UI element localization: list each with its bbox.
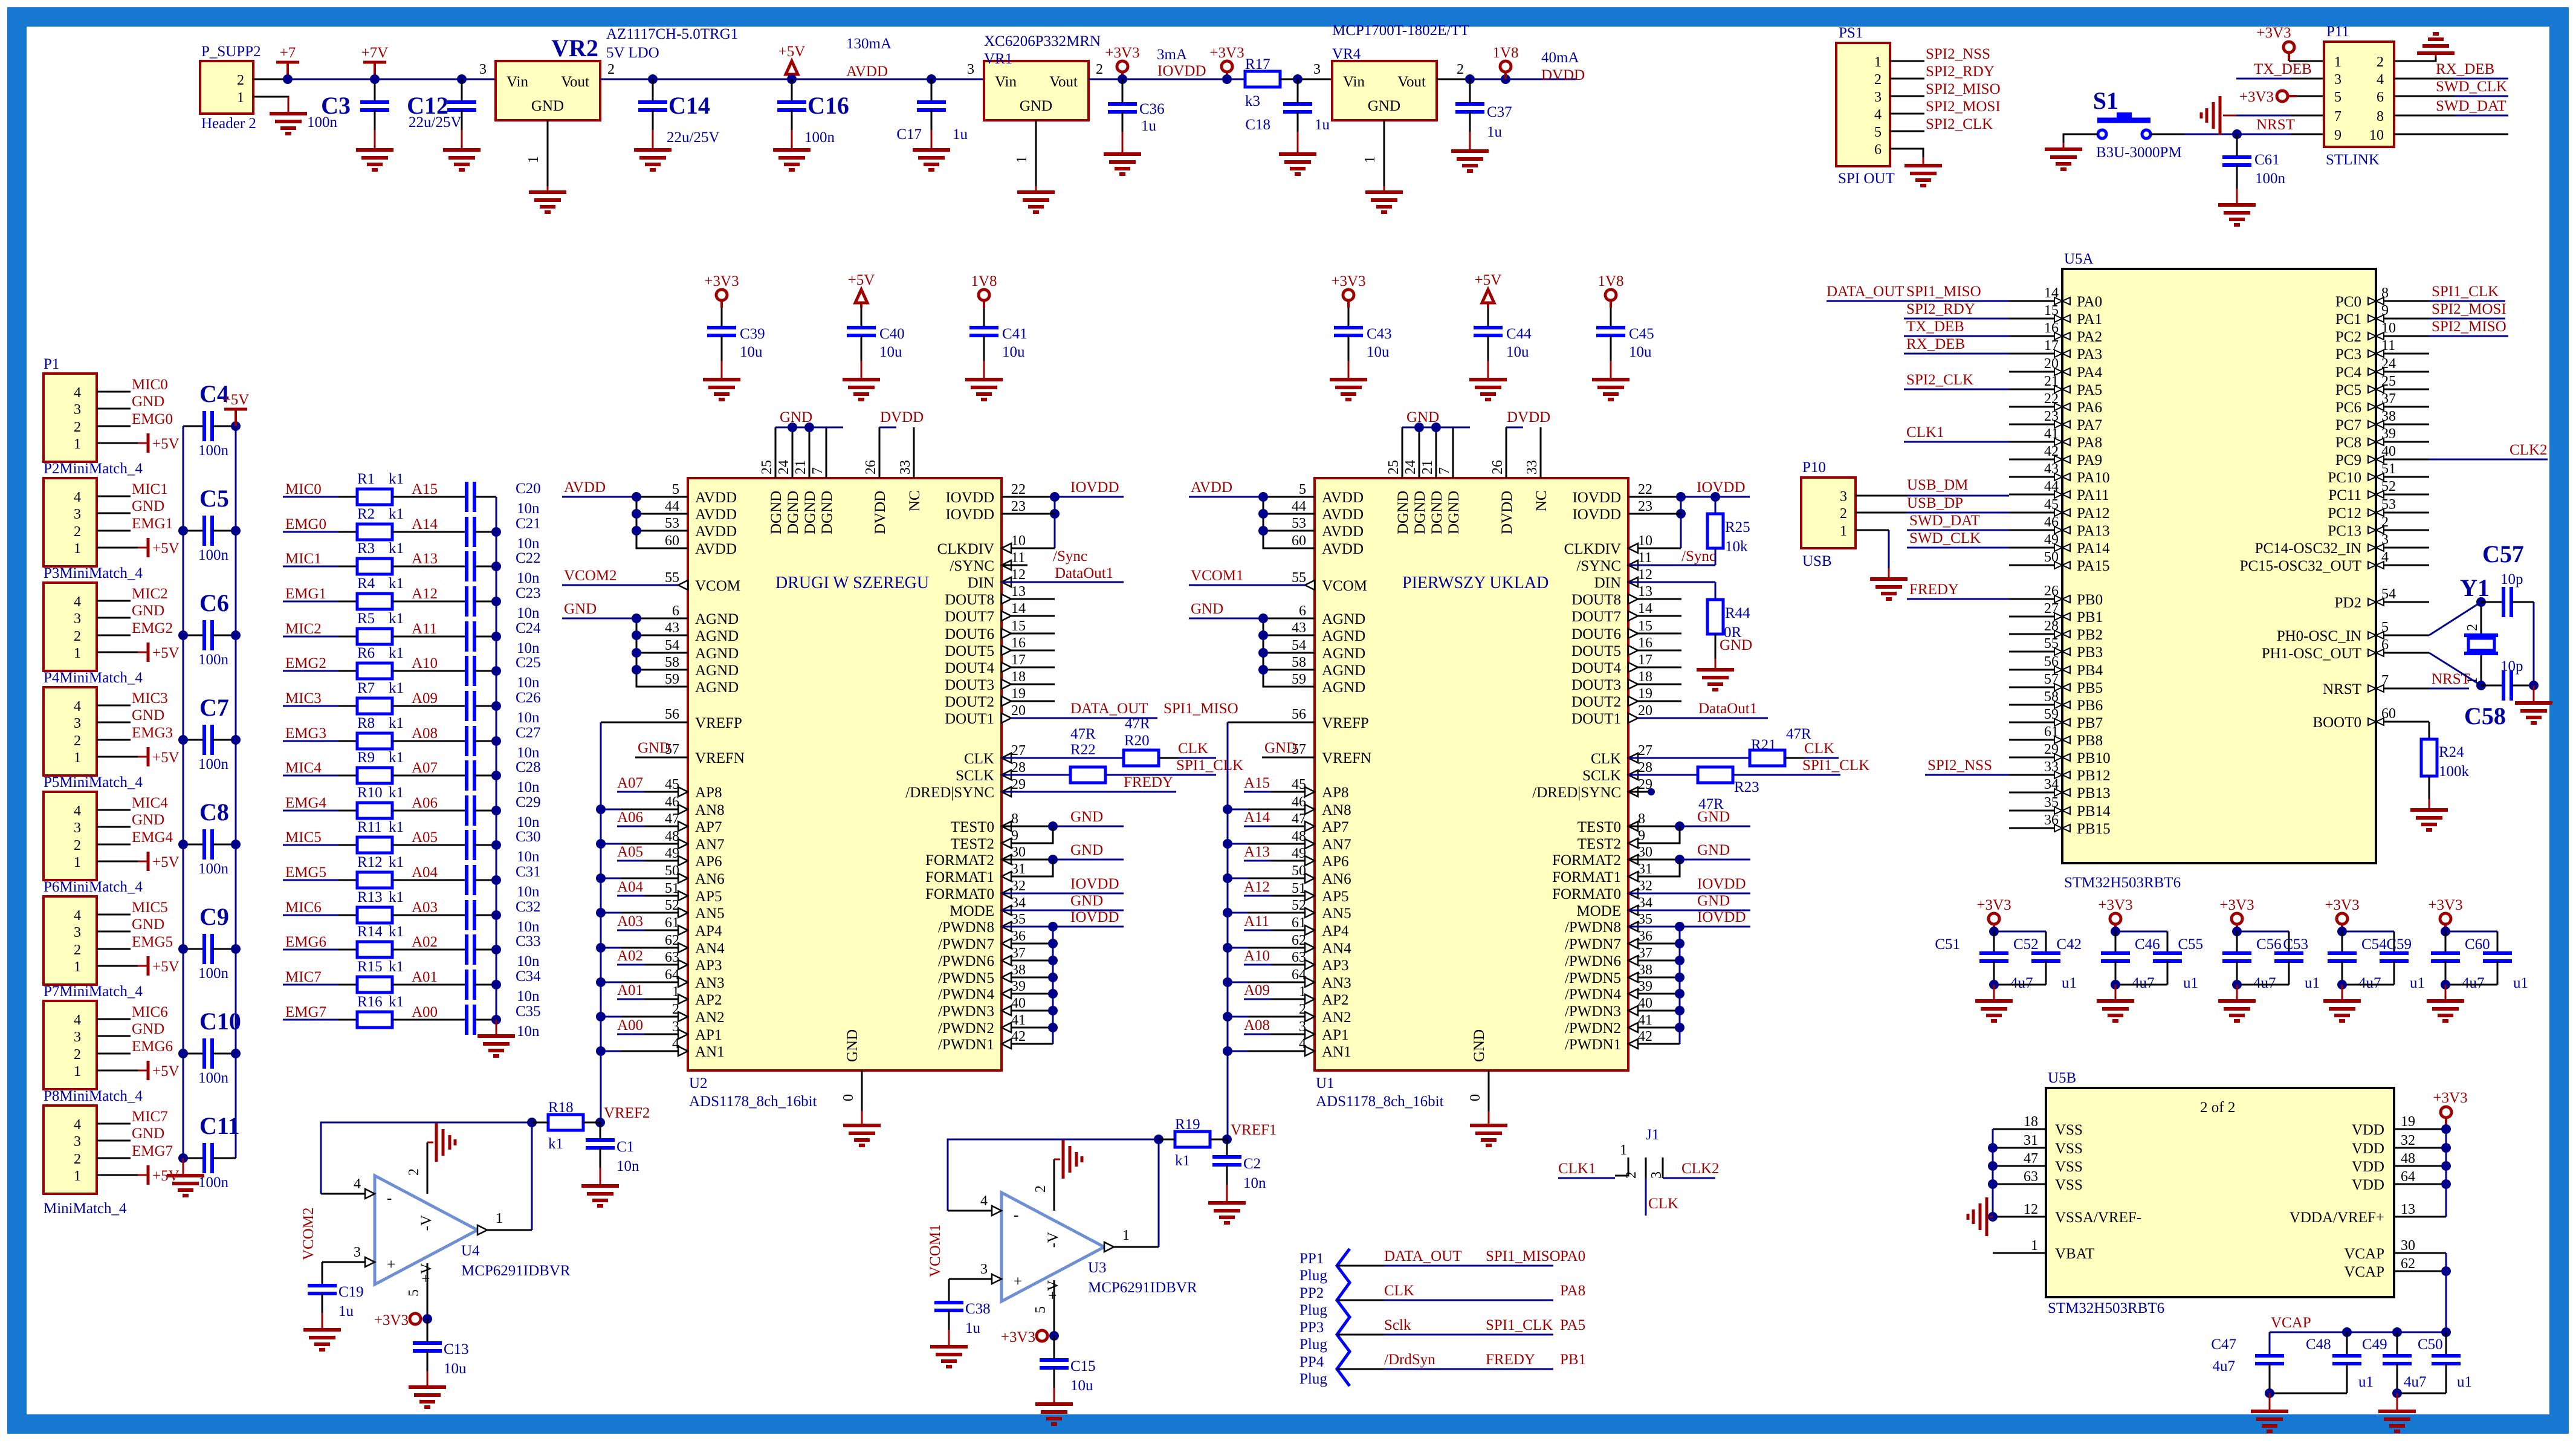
svg-text:DOUT8: DOUT8 <box>1571 592 1621 608</box>
svg-text:10n: 10n <box>517 1023 540 1040</box>
svg-text:C52: C52 <box>2013 936 2039 953</box>
svg-text:25: 25 <box>759 460 775 474</box>
wire P6 pin4 MIC5 <box>97 899 168 916</box>
svg-text:+7: +7 <box>280 45 296 61</box>
AVDD pins bracket <box>632 482 737 557</box>
U3 feedback wire <box>948 1139 1159 1216</box>
svg-text:VSSA/VREF-: VSSA/VREF- <box>2055 1209 2141 1226</box>
ground under C55 <box>2218 980 2256 1021</box>
svg-text:+3V3: +3V3 <box>2325 897 2359 913</box>
svg-text:1: 1 <box>1362 156 1378 163</box>
capacitor C58 <box>2464 658 2539 730</box>
svg-text:AVDD: AVDD <box>1191 479 1232 496</box>
svg-text:10n: 10n <box>517 953 540 970</box>
svg-text:C20: C20 <box>516 481 541 497</box>
ground at PS1 pin6 <box>1904 166 1942 186</box>
svg-text:IOVDD: IOVDD <box>1070 909 1119 925</box>
svg-text:53: 53 <box>1292 516 1306 531</box>
J1 pin1 <box>1615 1157 1628 1176</box>
resistor R5 <box>283 610 467 644</box>
svg-text:7: 7 <box>810 467 826 474</box>
svg-text:3: 3 <box>479 62 487 77</box>
svg-text:P4MiniMatch_4: P4MiniMatch_4 <box>44 670 143 686</box>
svg-text:3: 3 <box>74 1029 81 1045</box>
U1 PWDN8 IOVDD wire <box>1628 909 1750 931</box>
svg-text:58: 58 <box>1292 655 1306 670</box>
IC U5B box <box>2046 1070 2394 1316</box>
capacitor C52 <box>1994 931 2077 991</box>
svg-text:/PWDN1: /PWDN1 <box>1565 1037 1621 1053</box>
IC U1 ADS1178 box <box>1315 478 1628 1110</box>
svg-text:17: 17 <box>1638 652 1652 668</box>
power +7V <box>361 45 389 84</box>
svg-text:k1: k1 <box>389 785 404 801</box>
svg-text:1: 1 <box>1874 54 1882 70</box>
svg-text:CLK: CLK <box>1648 1196 1678 1212</box>
svg-text:VCOM: VCOM <box>695 578 740 594</box>
IC GND bottom pin <box>841 1029 862 1125</box>
svg-text:60: 60 <box>665 533 679 549</box>
svg-text:P2MiniMatch_4: P2MiniMatch_4 <box>44 461 143 477</box>
svg-text:+3V3: +3V3 <box>1976 897 2011 913</box>
svg-text:VREFP: VREFP <box>695 715 742 731</box>
svg-text:PA13: PA13 <box>2077 523 2110 539</box>
svg-text:2: 2 <box>1457 62 1464 77</box>
svg-text:C36: C36 <box>1139 101 1165 117</box>
ground under R44 <box>1697 670 1734 690</box>
svg-text:39: 39 <box>1011 979 1026 994</box>
svg-text:MIC6: MIC6 <box>132 1004 168 1020</box>
svg-text:10u: 10u <box>1002 344 1025 360</box>
svg-text:AVDD: AVDD <box>1322 523 1364 540</box>
svg-text:52: 52 <box>665 898 679 913</box>
svg-text:10n: 10n <box>517 536 540 552</box>
capacitor C15 <box>1040 1336 1096 1404</box>
svg-text:k1: k1 <box>389 819 404 835</box>
svg-text:10: 10 <box>2369 128 2384 143</box>
power +3V3 above C39 <box>704 273 739 308</box>
svg-text:15: 15 <box>1011 618 1026 634</box>
ground under C41 <box>965 380 1003 400</box>
svg-text:PB13: PB13 <box>2077 785 2111 801</box>
svg-text:SPI1_CLK: SPI1_CLK <box>1176 757 1243 774</box>
svg-text:SPI1_MISO: SPI1_MISO <box>1163 701 1238 717</box>
svg-text:EMG1: EMG1 <box>285 586 326 602</box>
ground under C14 <box>634 150 672 170</box>
svg-text:3: 3 <box>1840 489 1847 505</box>
capacitor C59 <box>2386 927 2484 991</box>
svg-text:C5: C5 <box>199 485 229 512</box>
power +3V3 above C53 <box>2325 897 2359 931</box>
svg-text:/DRED|SYNC: /DRED|SYNC <box>1532 785 1621 801</box>
U5A NRST pin <box>2323 673 2429 698</box>
capacitor C22 <box>467 550 541 586</box>
U4 output wire <box>477 1122 532 1235</box>
svg-text:C38: C38 <box>965 1301 991 1317</box>
svg-text:MCP6291IDBVR: MCP6291IDBVR <box>1088 1280 1197 1296</box>
svg-text:USB: USB <box>1802 553 1832 569</box>
svg-text:NC: NC <box>907 490 923 511</box>
svg-text:/SYNC: /SYNC <box>950 558 994 574</box>
wire P3 pin1 +5V <box>97 652 148 653</box>
NC top pin <box>898 427 923 511</box>
ground under VR1 <box>1017 192 1055 212</box>
resistor R25 <box>1707 497 1750 565</box>
ground under C59 <box>2427 980 2464 1021</box>
svg-text:AN5: AN5 <box>1322 905 1351 922</box>
svg-text:2: 2 <box>406 1168 422 1176</box>
ground under C16 <box>773 150 811 170</box>
svg-text:S1: S1 <box>2093 87 2118 114</box>
svg-text:32: 32 <box>2401 1133 2415 1148</box>
svg-text:GND: GND <box>1697 809 1730 825</box>
svg-text:R16: R16 <box>357 994 383 1010</box>
J1 pin3 CLK2 wire <box>1649 1157 1720 1179</box>
svg-text:EMG7: EMG7 <box>285 1004 326 1020</box>
svg-text:AGND: AGND <box>695 646 739 662</box>
net label DVDD <box>1507 409 1550 426</box>
U5B VDD rail <box>2441 1124 2451 1217</box>
U1 DIN wire to R44 <box>1628 582 1715 600</box>
power +3V3 above C43 <box>1331 273 1365 308</box>
svg-text:5: 5 <box>1874 125 1882 140</box>
connector P10 <box>1801 459 1856 569</box>
svg-text:2: 2 <box>2377 54 2384 70</box>
capacitor C54 <box>2342 931 2425 991</box>
svg-text:A09: A09 <box>412 690 438 707</box>
svg-text:20: 20 <box>1638 703 1652 719</box>
svg-text:63: 63 <box>2024 1169 2038 1185</box>
svg-text:30: 30 <box>2401 1238 2415 1254</box>
capacitor C32 <box>467 899 541 935</box>
capacitor C2 <box>1212 1139 1266 1203</box>
capacitor C7 <box>178 694 241 772</box>
capacitor C14 <box>638 74 720 150</box>
svg-text:GND: GND <box>1406 409 1439 426</box>
U3 pin2 earth ground <box>1033 1140 1082 1211</box>
svg-text:47R: 47R <box>1070 726 1096 742</box>
svg-text:23: 23 <box>1638 499 1652 514</box>
svg-text:-V: -V <box>418 1215 435 1231</box>
net label SPI2_RDY <box>1926 63 1995 80</box>
svg-text:2: 2 <box>74 1047 81 1063</box>
svg-text:AP2: AP2 <box>1322 992 1348 1008</box>
svg-text:CLK: CLK <box>1178 740 1208 757</box>
capacitor C35 <box>467 1003 541 1040</box>
svg-text:DATA_OUT: DATA_OUT <box>1384 1248 1462 1264</box>
svg-text:PP3: PP3 <box>1299 1319 1324 1336</box>
U5B VBAT pin <box>1993 1238 2094 1262</box>
J1 pin2 CLK wire <box>1623 1157 1678 1216</box>
svg-text:5: 5 <box>2334 89 2341 105</box>
capacitor C40 <box>847 308 905 380</box>
connector P3 <box>44 565 143 671</box>
U1 IOVDD bracket right <box>1628 479 1750 548</box>
svg-text:EMG5: EMG5 <box>285 864 326 881</box>
svg-text:A14: A14 <box>1244 809 1270 826</box>
svg-text:MODE: MODE <box>1576 903 1621 919</box>
svg-text:PA2: PA2 <box>2077 329 2102 345</box>
svg-text:DIN: DIN <box>968 575 994 591</box>
svg-text:Sclk: Sclk <box>1384 1317 1411 1333</box>
wire P8 pin3 GND <box>97 1125 164 1142</box>
svg-text:k1: k1 <box>389 471 404 487</box>
capacitor C33 <box>467 933 541 970</box>
svg-text:AN4: AN4 <box>695 941 725 957</box>
svg-text:100n: 100n <box>198 965 229 982</box>
svg-text:AN8: AN8 <box>695 802 725 818</box>
svg-text:R3: R3 <box>357 540 375 557</box>
svg-text:AP6: AP6 <box>695 853 722 870</box>
svg-text:SWD_CLK: SWD_CLK <box>2436 79 2507 95</box>
svg-text:3: 3 <box>980 1261 988 1277</box>
svg-text:23: 23 <box>1011 499 1026 514</box>
wire P7 pin3 GND <box>97 1021 164 1037</box>
wire VR1 Vout to VR4 <box>1089 79 1332 80</box>
svg-text:47R: 47R <box>1786 726 1811 742</box>
svg-text:R14: R14 <box>357 924 383 940</box>
svg-text:SPI2_NSS: SPI2_NSS <box>1926 46 1990 62</box>
AGND pins bracket <box>1258 603 1365 696</box>
svg-text:7: 7 <box>1437 467 1452 474</box>
U2 DIN DataOut1 wire <box>1002 565 1124 582</box>
svg-text:4u7: 4u7 <box>2132 975 2155 991</box>
VREFN pin GND <box>1262 740 1371 766</box>
svg-text:58: 58 <box>665 655 679 670</box>
svg-text:GND: GND <box>1070 893 1103 909</box>
analog input pins AP/AN <box>596 775 725 1060</box>
svg-text:22: 22 <box>1638 482 1652 497</box>
wire PH1 to Y1 <box>2429 653 2486 690</box>
svg-text:+3V3: +3V3 <box>1331 273 1365 290</box>
svg-text:+3V3: +3V3 <box>374 1312 409 1329</box>
svg-text:47R: 47R <box>1125 716 1150 732</box>
wire P_SUPP2 pin2 to +7 node <box>253 79 288 80</box>
wire P5 pin4 MIC4 <box>97 795 168 811</box>
U5A PC pins <box>2328 285 2429 539</box>
svg-text:u1: u1 <box>2305 975 2320 991</box>
wire P2 pin3 GND <box>97 498 164 514</box>
svg-text:10n: 10n <box>517 919 540 935</box>
svg-text:28: 28 <box>1638 760 1652 775</box>
svg-text:GND: GND <box>132 603 164 619</box>
svg-text:C2: C2 <box>1243 1156 1261 1172</box>
svg-text:DGND: DGND <box>785 491 801 534</box>
bus wire of C20-C35 <box>496 497 497 1020</box>
svg-text:-: - <box>387 1190 392 1206</box>
svg-text:AN8: AN8 <box>1322 802 1351 818</box>
wire PH0 to Y1 <box>2429 597 2486 635</box>
svg-text:PA4: PA4 <box>2077 364 2103 381</box>
svg-text:AVDD: AVDD <box>695 507 737 523</box>
svg-text:CLK: CLK <box>1804 740 1834 757</box>
svg-text:10n: 10n <box>517 884 540 900</box>
svg-text:MIC7: MIC7 <box>132 1109 168 1125</box>
net label DATA_OUT at U5A <box>1827 283 1904 301</box>
svg-text:FORMAT1: FORMAT1 <box>1552 869 1621 886</box>
svg-text:C53: C53 <box>2283 936 2308 953</box>
net label NRST at U5A <box>2429 671 2470 688</box>
svg-text:C50: C50 <box>2418 1336 2443 1353</box>
net label VCAP <box>2271 1315 2311 1331</box>
svg-text:C56: C56 <box>2256 936 2282 953</box>
svg-text:BOOT0: BOOT0 <box>2312 714 2361 731</box>
power +5V at P3 <box>148 643 180 662</box>
svg-text:SPI2_CLK: SPI2_CLK <box>1906 372 1973 388</box>
svg-text:12: 12 <box>1011 567 1026 583</box>
svg-text:3: 3 <box>354 1245 361 1260</box>
NC top pin <box>1524 427 1550 511</box>
svg-text:50: 50 <box>1292 863 1306 879</box>
capacitor C47 <box>2211 1332 2284 1393</box>
svg-text:EMG6: EMG6 <box>285 934 326 950</box>
svg-text:1: 1 <box>1014 156 1030 163</box>
net wire TX_DEB to U5A <box>1904 319 2009 336</box>
U5A PH0 PH1 pins <box>2262 620 2429 662</box>
svg-text:AVDD: AVDD <box>1322 507 1364 523</box>
svg-text:GND: GND <box>1720 637 1752 653</box>
svg-text:IOVDD: IOVDD <box>945 490 994 506</box>
svg-text:PC0: PC0 <box>2335 294 2361 310</box>
svg-text:VSS: VSS <box>2055 1159 2083 1175</box>
capacitor C44 <box>1474 308 1532 380</box>
svg-text:k1: k1 <box>389 889 404 905</box>
svg-text:AZ1117CH-5.0TRG1: AZ1117CH-5.0TRG1 <box>606 26 738 42</box>
svg-text:C23: C23 <box>516 585 541 601</box>
svg-text:/PWDN5: /PWDN5 <box>938 970 994 986</box>
capacitor C4 <box>183 380 241 459</box>
net label AVDD wire <box>1189 479 1263 497</box>
svg-text:10n: 10n <box>517 640 540 656</box>
svg-text:22u/25V: 22u/25V <box>409 114 462 131</box>
svg-text:DGND: DGND <box>819 491 835 534</box>
svg-text:+: + <box>1014 1274 1022 1290</box>
net wire SPI1_CLK at PC0 <box>2429 283 2505 301</box>
svg-text:AP6: AP6 <box>1322 853 1348 870</box>
capacitor C60 <box>2445 931 2528 991</box>
svg-text:6: 6 <box>2377 89 2384 105</box>
svg-text:C17: C17 <box>896 126 922 143</box>
svg-text:VCOM2: VCOM2 <box>300 1207 317 1260</box>
resistor R3 <box>283 540 467 574</box>
svg-text:IOVDD: IOVDD <box>1572 490 1621 506</box>
svg-text:AN1: AN1 <box>695 1044 725 1060</box>
capacitor C31 <box>467 864 541 900</box>
svg-text:EMG2: EMG2 <box>132 620 173 636</box>
svg-text:C45: C45 <box>1629 326 1654 342</box>
svg-text:USB_DM: USB_DM <box>1907 477 1968 493</box>
earth ground above P11 <box>2417 34 2455 53</box>
svg-text:SPI OUT: SPI OUT <box>1838 170 1895 187</box>
svg-text:PP1: PP1 <box>1299 1251 1324 1267</box>
svg-text:C55: C55 <box>2178 936 2203 953</box>
svg-text:A06: A06 <box>617 809 643 826</box>
ground under C2 <box>1208 1203 1246 1223</box>
svg-text:C58: C58 <box>2464 702 2506 730</box>
resistor R23 <box>1628 757 1869 812</box>
connector P8 <box>44 1088 143 1217</box>
svg-text:47: 47 <box>2024 1151 2038 1167</box>
svg-text:10n: 10n <box>517 500 540 517</box>
svg-text:51: 51 <box>665 881 679 896</box>
svg-text:5: 5 <box>406 1289 422 1297</box>
svg-text:R8: R8 <box>357 715 375 731</box>
ground under C43 <box>1330 380 1367 400</box>
power +5V at C4 bus <box>222 392 250 426</box>
svg-text:GND: GND <box>1070 809 1103 825</box>
capacitor C30 <box>467 829 541 865</box>
svg-text:27: 27 <box>1011 743 1026 759</box>
net label GND wire at AGND <box>562 601 636 618</box>
U5B VDD pins <box>2352 1114 2446 1193</box>
svg-text:+5V: +5V <box>152 854 180 870</box>
svg-text:/Sync: /Sync <box>1681 548 1716 565</box>
svg-text:0: 0 <box>841 1094 856 1101</box>
ground under C47 <box>2251 1411 2288 1431</box>
svg-text:PB12: PB12 <box>2077 768 2111 784</box>
power +3V3 above C55 <box>2219 897 2254 931</box>
svg-text:/SYNC: /SYNC <box>1576 558 1621 574</box>
svg-text:AP1: AP1 <box>695 1027 722 1043</box>
capacitor C18 <box>1245 79 1330 154</box>
svg-text:1V8: 1V8 <box>1492 45 1518 61</box>
svg-text:VSS: VSS <box>2055 1122 2083 1138</box>
svg-text:56: 56 <box>1292 707 1306 722</box>
svg-text:/PWDN2: /PWDN2 <box>1565 1020 1621 1037</box>
svg-text:PC10: PC10 <box>2328 470 2361 486</box>
svg-text:MIC2: MIC2 <box>285 621 322 637</box>
ground at bus bottom <box>167 1158 204 1196</box>
svg-text:33: 33 <box>1524 460 1540 474</box>
svg-text:10: 10 <box>1011 533 1026 549</box>
svg-text:CLK: CLK <box>1591 751 1621 767</box>
svg-text:64: 64 <box>665 967 679 983</box>
U2 FORMAT0 IOVDD wire <box>1002 876 1124 893</box>
svg-text:VDDA/VREF+: VDDA/VREF+ <box>2290 1209 2384 1226</box>
svg-text:u1: u1 <box>2062 975 2077 991</box>
svg-text:GND: GND <box>1697 842 1730 858</box>
svg-text:PC5: PC5 <box>2335 382 2361 398</box>
svg-text:GND: GND <box>132 812 164 828</box>
svg-text:/PWDN4: /PWDN4 <box>938 986 995 1003</box>
U2 PWDN8 IOVDD wire <box>1002 909 1124 931</box>
net label SPI2_MOSI <box>1926 99 2001 115</box>
svg-text:EMG1: EMG1 <box>132 516 173 532</box>
resistor R22 <box>1002 726 1243 783</box>
wire PS1 pin5 <box>1890 131 1924 132</box>
svg-text:/DrdSyn: /DrdSyn <box>1384 1352 1435 1368</box>
svg-text:GND: GND <box>132 1125 164 1142</box>
svg-text:19: 19 <box>2401 1114 2415 1130</box>
connector P4 <box>44 670 143 775</box>
svg-text:59: 59 <box>1292 672 1306 687</box>
svg-text:VCAP: VCAP <box>2344 1264 2384 1280</box>
svg-text:16: 16 <box>1638 635 1652 651</box>
svg-text:U3: U3 <box>1088 1260 1107 1276</box>
wire P1 pin3 GND <box>97 393 164 410</box>
U3 pin5 +3V3 <box>1001 1280 1059 1345</box>
svg-text:+5V: +5V <box>152 645 180 661</box>
wire PS1 pin6 to ground <box>1890 149 1923 166</box>
wire P7 pin2 EMG6 <box>97 1038 173 1055</box>
svg-text:A13: A13 <box>412 551 438 567</box>
svg-text:20: 20 <box>1011 703 1026 719</box>
capacitor C55 <box>2178 927 2276 991</box>
wire P1 pin2 EMG0 <box>97 411 173 427</box>
svg-text:C44: C44 <box>1506 326 1532 342</box>
connector P_SUPP2 <box>200 44 261 132</box>
svg-text:/PWDN3: /PWDN3 <box>938 1003 994 1020</box>
